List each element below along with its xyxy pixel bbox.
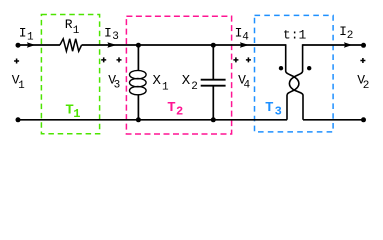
wire top-left segment xyxy=(18,44,60,46)
plus sign V3 left xyxy=(101,57,106,62)
svg-text:t:1: t:1 xyxy=(283,28,307,43)
svg-text:1: 1 xyxy=(18,80,25,92)
svg-text:2: 2 xyxy=(363,80,370,92)
wire bottom-left segment xyxy=(18,119,287,121)
svg-text:4: 4 xyxy=(244,79,251,91)
transformer U1 (ideal, t:1) xyxy=(286,44,303,120)
svg-text:3: 3 xyxy=(114,79,121,91)
arrow I3 xyxy=(107,42,116,48)
wire bottom-right segment xyxy=(303,119,364,121)
svg-text:T: T xyxy=(265,100,273,116)
svg-text:I: I xyxy=(19,25,27,40)
transformer secondary winding xyxy=(289,44,303,120)
svg-text:I: I xyxy=(104,25,112,40)
svg-text:R: R xyxy=(65,17,73,32)
arrow I2 xyxy=(344,42,352,48)
resistor R1 xyxy=(60,39,82,51)
plus sign port1 xyxy=(14,59,19,64)
box T2 (magenta dashed) xyxy=(126,16,231,134)
svg-text:I: I xyxy=(339,24,347,39)
svg-text:1: 1 xyxy=(162,81,169,93)
svg-text:T: T xyxy=(167,100,175,116)
plus sign V3 right xyxy=(117,57,122,62)
junction dot X2 bottom xyxy=(211,117,216,122)
svg-text:1: 1 xyxy=(73,107,80,121)
node dot bottom-right xyxy=(361,117,366,122)
junction dot X2 top xyxy=(211,43,216,48)
svg-text:X: X xyxy=(182,73,191,89)
transformer polarity dot right xyxy=(307,66,311,70)
svg-text:2: 2 xyxy=(191,81,198,93)
plus sign port2 xyxy=(360,58,365,63)
svg-text:1: 1 xyxy=(27,31,34,43)
svg-text:4: 4 xyxy=(242,32,249,44)
wire top-middle segment xyxy=(82,44,286,46)
svg-text:2: 2 xyxy=(176,105,183,119)
arrow I1 xyxy=(27,42,35,48)
junction dot X1 bottom xyxy=(136,117,141,122)
junction dot X1 top xyxy=(136,43,141,48)
capacitor X2 xyxy=(201,45,226,120)
box T3 (blue dashed) xyxy=(255,15,334,131)
node dot top-right xyxy=(361,43,366,48)
transformer primary winding xyxy=(286,44,299,120)
svg-text:1: 1 xyxy=(73,25,80,37)
arrow I4 xyxy=(240,42,249,48)
wire top-right segment xyxy=(303,44,364,46)
transformer polarity dot left xyxy=(279,66,283,70)
plus sign V4 left xyxy=(233,57,238,62)
inductor X1 xyxy=(130,45,147,120)
svg-text:3: 3 xyxy=(275,104,282,118)
svg-text:3: 3 xyxy=(112,31,119,43)
node dot top-left xyxy=(16,43,21,48)
svg-text:2: 2 xyxy=(347,30,354,42)
svg-text:X: X xyxy=(153,73,162,89)
box T1 (green dashed) xyxy=(41,15,99,134)
node dot bottom-left xyxy=(16,117,21,122)
plus sign V4 right xyxy=(246,57,251,62)
